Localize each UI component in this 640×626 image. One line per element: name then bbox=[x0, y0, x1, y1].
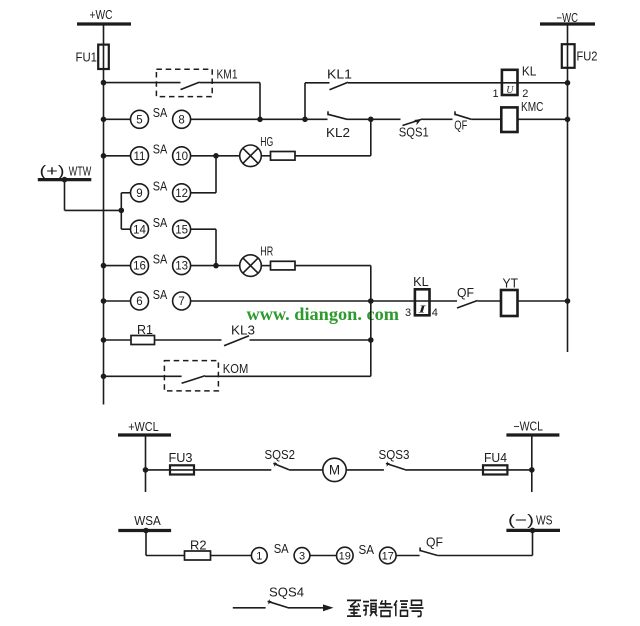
svg-text:3: 3 bbox=[405, 307, 411, 319]
svg-text:SA: SA bbox=[153, 216, 168, 230]
svg-text:R1: R1 bbox=[137, 323, 153, 337]
svg-text:−WCL: −WCL bbox=[514, 420, 544, 434]
svg-text:SA: SA bbox=[153, 288, 168, 302]
svg-text:SA: SA bbox=[274, 542, 290, 556]
svg-text:KOM: KOM bbox=[223, 362, 249, 376]
svg-text:QF: QF bbox=[426, 536, 443, 550]
svg-text:17: 17 bbox=[382, 550, 394, 562]
svg-text:5: 5 bbox=[136, 114, 142, 126]
svg-text:U: U bbox=[506, 85, 514, 96]
svg-text:SA: SA bbox=[153, 253, 168, 267]
svg-text:KL: KL bbox=[522, 64, 537, 78]
svg-text:SA: SA bbox=[153, 106, 168, 120]
svg-text:I: I bbox=[417, 304, 427, 316]
svg-text:+WCL: +WCL bbox=[128, 420, 159, 434]
svg-text:9: 9 bbox=[136, 188, 142, 200]
svg-text:KL2: KL2 bbox=[326, 126, 350, 140]
svg-text:FU1: FU1 bbox=[76, 50, 98, 64]
svg-text:HR: HR bbox=[260, 244, 273, 258]
svg-text:7: 7 bbox=[178, 296, 184, 308]
svg-text:19: 19 bbox=[339, 550, 351, 562]
svg-text:M: M bbox=[329, 463, 340, 478]
svg-text:(+): (+) bbox=[40, 163, 65, 180]
svg-text:+WC: +WC bbox=[90, 8, 113, 22]
svg-text:R2: R2 bbox=[190, 539, 207, 553]
svg-text:15: 15 bbox=[175, 224, 188, 236]
svg-text:FU3: FU3 bbox=[169, 451, 193, 465]
svg-text:SQS2: SQS2 bbox=[265, 448, 296, 462]
svg-text:WS: WS bbox=[536, 513, 553, 527]
svg-text:6: 6 bbox=[136, 296, 142, 308]
svg-text:FU2: FU2 bbox=[577, 49, 598, 63]
svg-text:(−): (−) bbox=[508, 512, 534, 529]
svg-text:SQS1: SQS1 bbox=[399, 126, 429, 140]
svg-text:1: 1 bbox=[493, 88, 499, 100]
svg-text:www. diangon. com: www. diangon. com bbox=[247, 304, 400, 324]
svg-text:KMC: KMC bbox=[521, 100, 544, 114]
svg-text:SA: SA bbox=[153, 180, 168, 194]
svg-text:SA: SA bbox=[153, 143, 168, 157]
svg-text:QF: QF bbox=[457, 286, 474, 300]
svg-text:WSA: WSA bbox=[134, 514, 161, 528]
svg-text:SQS4: SQS4 bbox=[269, 585, 304, 599]
svg-text:8: 8 bbox=[178, 114, 184, 126]
svg-text:4: 4 bbox=[432, 307, 438, 319]
svg-text:3: 3 bbox=[299, 550, 305, 562]
svg-text:16: 16 bbox=[133, 261, 146, 273]
svg-text:11: 11 bbox=[134, 151, 146, 163]
svg-text:KM1: KM1 bbox=[217, 67, 238, 81]
svg-text:HG: HG bbox=[260, 135, 273, 149]
svg-text:10: 10 bbox=[175, 151, 188, 163]
svg-text:FU4: FU4 bbox=[484, 451, 507, 465]
svg-text:KL1: KL1 bbox=[327, 68, 352, 82]
svg-text:1: 1 bbox=[256, 550, 262, 562]
svg-text:2: 2 bbox=[522, 88, 528, 100]
svg-text:12: 12 bbox=[175, 188, 188, 200]
svg-text:KL3: KL3 bbox=[231, 324, 255, 338]
svg-text:KL: KL bbox=[413, 275, 429, 289]
svg-text:WTW: WTW bbox=[69, 164, 92, 178]
svg-text:QF: QF bbox=[454, 119, 467, 133]
svg-text:13: 13 bbox=[175, 261, 188, 273]
svg-text:SQS3: SQS3 bbox=[379, 448, 410, 462]
svg-text:SA: SA bbox=[359, 543, 375, 557]
svg-text:YT: YT bbox=[503, 277, 519, 291]
svg-text:14: 14 bbox=[133, 224, 146, 236]
